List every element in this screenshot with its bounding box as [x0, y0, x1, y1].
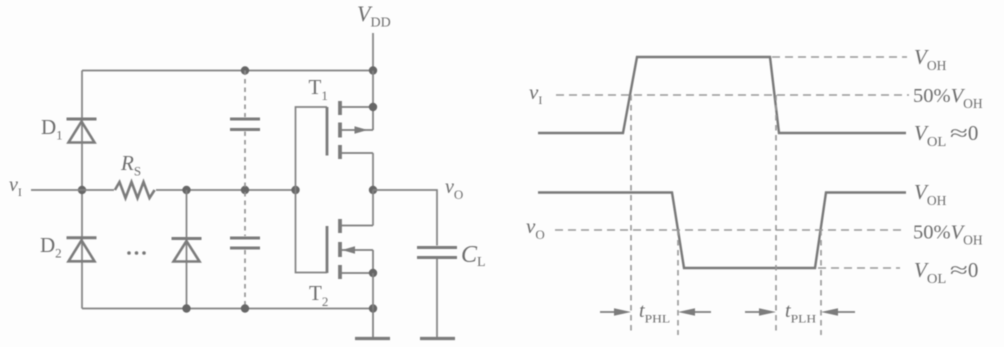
wire CL bottom — [436, 259, 438, 339]
node RS D3 — [182, 186, 190, 194]
node T1 source — [369, 103, 377, 111]
svg-text:T1: T1 — [309, 75, 328, 103]
wire input left — [31, 189, 114, 191]
node T2 source — [369, 269, 377, 277]
wire parasitic dashed — [244, 71, 246, 309]
svg-text:D1: D1 — [41, 115, 63, 143]
wire top rail — [82, 70, 373, 72]
svg-text:vI: vI — [9, 174, 22, 199]
svg-text:50%VOH: 50%VOH — [913, 222, 983, 248]
svg-text:VOL≈0: VOL≈0 — [914, 121, 978, 149]
wire bottom rail — [82, 308, 373, 310]
svg-text:VOL≈0: VOL≈0 — [914, 258, 978, 286]
ellipsis more diodes — [127, 251, 146, 255]
svg-text:tPHL: tPHL — [639, 300, 670, 326]
node input parasitic — [241, 186, 249, 194]
wire gate bracket — [296, 107, 328, 273]
dashed level VOH input — [772, 56, 907, 58]
transistor T1 PMOS — [327, 101, 373, 159]
arrow tPLH left — [745, 308, 776, 315]
svg-text:VOH: VOH — [914, 45, 947, 73]
wire T2 drain to output — [372, 190, 374, 226]
transistor T2 NMOS — [327, 219, 373, 279]
node top rail VDD — [369, 66, 377, 74]
svg-text:vO: vO — [526, 214, 545, 242]
node input branch — [78, 186, 86, 194]
svg-text:CL: CL — [461, 242, 486, 270]
svg-text:D2: D2 — [40, 233, 62, 261]
capacitor CL — [417, 248, 457, 258]
diode D3 — [172, 239, 202, 262]
node bottom parasitic — [241, 304, 249, 312]
node bottom D3 — [182, 304, 190, 312]
dashed marker t4 — [820, 230, 822, 335]
node bottom source — [369, 304, 377, 312]
waveform vO trace — [538, 193, 906, 269]
arrow tPLH right — [821, 308, 855, 315]
svg-text:RS: RS — [120, 151, 141, 179]
ground main — [355, 309, 390, 339]
node top rail parasitic — [241, 66, 249, 74]
waveform vI trace — [538, 57, 906, 133]
dashed marker t1 — [630, 95, 632, 335]
node output — [369, 186, 377, 194]
capacitor parasitic upper — [230, 119, 260, 130]
resistor RS — [115, 182, 155, 198]
dashed marker t3 — [775, 95, 777, 335]
arrow tPHL right — [678, 308, 711, 315]
svg-text:tPLH: tPLH — [785, 300, 816, 326]
wire output to CL — [373, 190, 437, 246]
dashed level VOL output — [818, 267, 900, 269]
arrow tPHL left — [600, 308, 631, 315]
wire T1 drain to output — [372, 153, 374, 190]
dashed level 50 input — [556, 94, 909, 96]
svg-text:VOH: VOH — [914, 180, 947, 208]
svg-text:VDD: VDD — [357, 1, 391, 31]
diode D2 — [67, 238, 97, 261]
wire input mid — [156, 189, 296, 191]
svg-text:vI: vI — [529, 80, 542, 107]
svg-text:T2: T2 — [309, 281, 328, 309]
dashed level 50 output — [555, 229, 905, 231]
dashed marker t2 — [677, 230, 679, 335]
diode D1 — [67, 119, 97, 143]
svg-text:vO: vO — [445, 176, 463, 202]
ground CL — [420, 337, 455, 340]
node gate — [291, 186, 299, 194]
wire left branch — [81, 71, 83, 309]
wire T2 source to rail — [372, 273, 374, 309]
capacitor parasitic lower — [230, 238, 260, 248]
wire VDD stub — [372, 33, 374, 71]
wire VDD to T1 — [372, 71, 374, 108]
svg-text:50%VOH: 50%VOH — [913, 85, 983, 111]
wire D3 branch — [186, 190, 188, 309]
